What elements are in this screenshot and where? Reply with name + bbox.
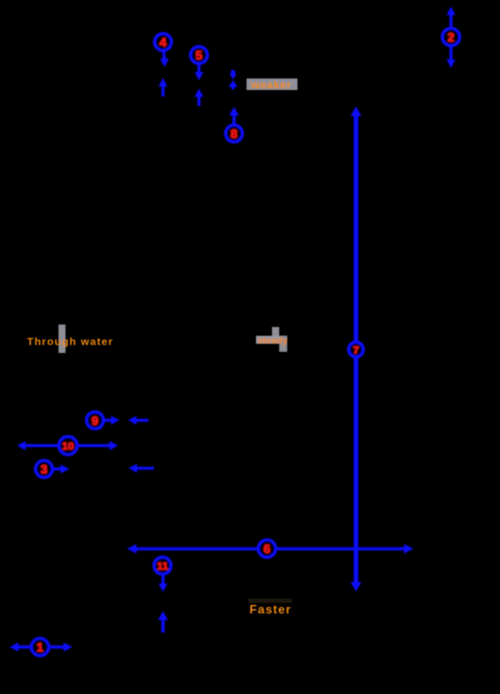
small up arrow above marker 8 column [229, 80, 238, 90]
label Through water with cursor bar [27, 325, 114, 354]
arrow left facing circle 9 [128, 416, 149, 425]
marker 2 circle [442, 28, 460, 46]
long horizontal double arrow [127, 544, 414, 554]
horizontal double arrow through marker 1 [10, 643, 73, 652]
arrow up below circle 5 [195, 89, 204, 107]
marker 5: circle with down arrow and facing up arrow [191, 47, 208, 64]
svg-text:5: 5 [196, 49, 203, 63]
small down arrow above marker 8 column [230, 70, 237, 80]
svg-text:steady: steady [258, 336, 289, 347]
svg-text:3: 3 [41, 463, 48, 477]
svg-text:weaker: weaker [250, 80, 292, 92]
marker 9 circle [86, 412, 103, 429]
svg-text:10: 10 [62, 441, 74, 453]
marker 3 circle [35, 460, 52, 477]
arrow down from circle 5 [195, 64, 204, 81]
arrow right from circle 9 [104, 416, 120, 425]
marker 10 circle [59, 436, 77, 454]
svg-text:7: 7 [353, 345, 359, 357]
svg-text:1: 1 [37, 641, 44, 655]
svg-text:11: 11 [157, 561, 168, 573]
marker 1 circle [31, 638, 49, 656]
horizontal double arrow through marker 10 [17, 441, 118, 450]
marker 4: circle with down arrow and facing up arrow [155, 34, 172, 51]
arrow up from circle 8 [229, 107, 239, 124]
arrow down from circle 11 [159, 575, 168, 593]
svg-text:Through water: Through water [27, 336, 114, 348]
arrow right from circle 3 [53, 465, 70, 474]
svg-text:6: 6 [264, 542, 271, 556]
svg-text:9: 9 [92, 414, 99, 428]
vertical double arrow through marker 2 [447, 7, 456, 69]
long vertical double arrow [351, 107, 362, 592]
marker 8 circle [226, 125, 243, 142]
label steady with gray cursor blocks [256, 327, 288, 352]
svg-text:Faster: Faster [250, 603, 292, 617]
marker 11 circle [154, 557, 171, 574]
label Crowded with selection highlight [247, 79, 298, 92]
up arrow above Faster label [158, 611, 168, 633]
marker 7 circle on vertical arrow [349, 342, 364, 357]
marker 6 circle on horizontal arrow [258, 540, 276, 558]
arrow down from circle 4 [160, 52, 169, 68]
svg-text:4: 4 [160, 36, 167, 50]
arrow up below circle 4 [159, 78, 168, 97]
svg-text:2: 2 [448, 31, 455, 45]
arrow left facing circle 3 [129, 464, 155, 473]
label Faster [248, 599, 292, 617]
svg-text:8: 8 [231, 127, 238, 141]
